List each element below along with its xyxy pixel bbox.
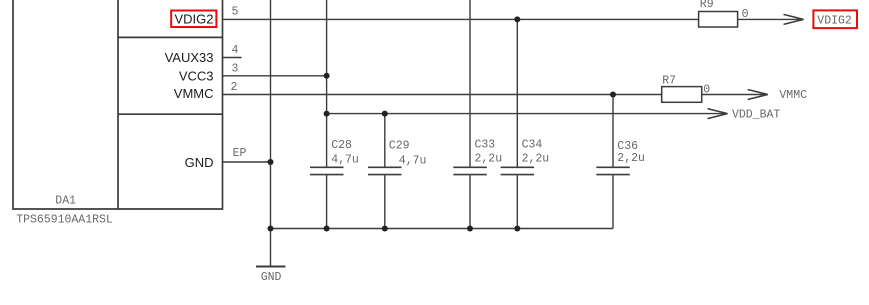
node: rail / C33 junction — [467, 226, 473, 232]
port VDIG2 highlight box — [813, 10, 857, 28]
arrow port VDIG2 — [784, 14, 804, 24]
node: rail / C28 junction — [324, 226, 330, 232]
node: EP / ground column junction — [268, 159, 274, 165]
wire EP pin to ground column — [223, 161, 271, 163]
svg-text:4: 4 — [232, 44, 239, 57]
svg-text:2,2u: 2,2u — [522, 153, 550, 166]
svg-text:GND: GND — [261, 271, 282, 284]
node: VCC3 / C28 column junction — [324, 73, 330, 79]
svg-text:VDD_BAT: VDD_BAT — [732, 108, 780, 121]
svg-text:VDIG2: VDIG2 — [817, 14, 852, 27]
node: rail / C29 junction — [382, 226, 388, 232]
node: ground rail / ground stub junction — [268, 226, 274, 232]
svg-text:TPS65910AA1RSL: TPS65910AA1RSL — [16, 214, 113, 227]
capacitor C34 plates — [501, 167, 534, 174]
svg-text:4,7u: 4,7u — [399, 154, 427, 167]
arrow port VDD_BAT — [708, 109, 728, 119]
arrow port VMMC — [748, 90, 768, 100]
capacitor C33 plates — [453, 167, 487, 174]
wire VCC3 net: pin 3 to node — [223, 75, 327, 77]
svg-text:VMMC: VMMC — [174, 86, 214, 101]
svg-text:2,2u: 2,2u — [475, 153, 503, 166]
svg-text:0: 0 — [703, 84, 710, 97]
capacitor C29 plates — [368, 167, 402, 174]
svg-text:2,2u: 2,2u — [617, 152, 645, 165]
wire ground rail — [271, 228, 614, 230]
svg-text:VAUX33: VAUX33 — [165, 50, 214, 65]
node: VDD_BAT / C28 column junction — [324, 111, 330, 117]
wire VMMC net: pin 2 to R7 — [223, 94, 662, 96]
svg-text:5: 5 — [232, 6, 239, 19]
svg-text:2: 2 — [231, 81, 238, 94]
IC DA1 body — [13, 0, 223, 209]
svg-text:R9: R9 — [700, 0, 714, 11]
wire C33 branch — [469, 0, 471, 229]
svg-text:VCC3: VCC3 — [179, 68, 214, 83]
node: VDIG2 net / C34 junction — [514, 16, 520, 22]
resistor R9 body — [699, 12, 738, 28]
node: VDD_BAT / C29 junction — [382, 111, 388, 117]
svg-text:4,7u: 4,7u — [331, 153, 359, 166]
svg-text:GND: GND — [185, 155, 214, 170]
wire ground stub to ground symbol — [270, 229, 272, 267]
ground — [256, 266, 286, 268]
wire R7 to VMMC arrow — [702, 94, 768, 96]
svg-text:VMMC: VMMC — [779, 89, 807, 102]
wire ground column vertical — [270, 0, 272, 229]
resistor R7 body — [662, 87, 702, 103]
svg-text:C28: C28 — [331, 139, 352, 152]
wire VDD_BAT net — [327, 113, 728, 115]
svg-text:EP: EP — [233, 147, 247, 160]
svg-text:C34: C34 — [522, 139, 543, 152]
wire R9 to VDIG2 arrow — [738, 18, 804, 20]
svg-text:DA1: DA1 — [55, 194, 76, 207]
capacitor C28 plates — [310, 167, 344, 174]
pin name VDIG2 highlight box — [171, 11, 216, 28]
svg-text:3: 3 — [232, 63, 239, 76]
wire C28 branch — [326, 0, 328, 229]
capacitor C36 plates — [596, 167, 630, 174]
node: VMMC / C36 junction — [610, 92, 616, 98]
wire C29 branch — [384, 114, 386, 229]
wire VDIG2 net: pin 5 to R9 — [223, 18, 699, 20]
svg-text:C29: C29 — [389, 139, 410, 152]
node: rail / C34 junction — [514, 226, 520, 232]
wire C36 branch — [612, 95, 614, 229]
svg-text:C33: C33 — [475, 139, 496, 152]
svg-text:R7: R7 — [662, 75, 676, 88]
wire pin 4 stub — [223, 57, 242, 59]
wire C34 branch — [516, 19, 518, 228]
svg-text:0: 0 — [742, 8, 749, 21]
svg-text:VDIG2: VDIG2 — [174, 11, 213, 26]
